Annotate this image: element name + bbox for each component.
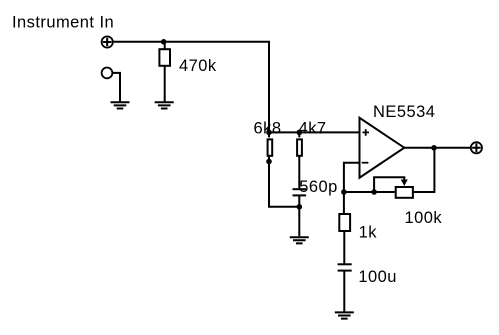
svg-text:560p: 560p: [299, 178, 338, 196]
svg-text:1k: 1k: [359, 223, 378, 241]
svg-text:100u: 100u: [358, 268, 397, 286]
svg-text:6k8: 6k8: [254, 119, 282, 137]
svg-text:NE5534: NE5534: [373, 103, 435, 121]
svg-text:Instrument In: Instrument In: [12, 13, 114, 31]
svg-text:470k: 470k: [179, 57, 217, 75]
svg-text:4k7: 4k7: [299, 119, 327, 137]
svg-text:100k: 100k: [405, 209, 443, 227]
